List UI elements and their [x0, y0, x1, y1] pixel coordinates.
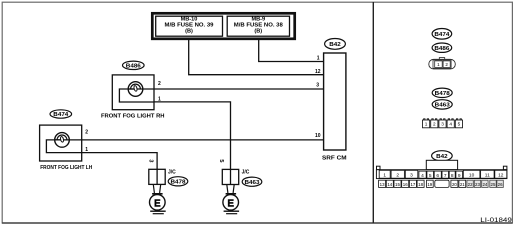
- connector label B42 (SRF CM): [325, 39, 346, 50]
- connector label B463: [242, 177, 262, 186]
- svg-text:5: 5: [429, 173, 432, 179]
- fog RH internal wiring: [119, 89, 154, 102]
- svg-text:22: 22: [468, 182, 473, 187]
- 26-pin connector body: [376, 170, 507, 179]
- 2-pin connector: [439, 58, 444, 60]
- fuse MB-9 box: [227, 16, 289, 36]
- svg-text:17: 17: [410, 182, 415, 187]
- svg-text:(B): (B): [254, 29, 262, 35]
- svg-text:3: 3: [441, 122, 444, 127]
- right panel: SRF CM connector B42 label: [432, 151, 453, 161]
- front fog light RH box: [112, 75, 154, 110]
- 5-pin J/C connector: [423, 120, 463, 128]
- 26-pin connector left notch: [377, 166, 381, 170]
- svg-text:B42: B42: [436, 154, 448, 160]
- wire fog RH pin 1 to J/C B463: [154, 102, 231, 169]
- svg-text:E: E: [154, 198, 161, 209]
- svg-text:J/C: J/C: [242, 169, 250, 175]
- svg-text:8: 8: [451, 173, 454, 179]
- connector label B474 (fog LH): [50, 110, 72, 118]
- svg-text:26: 26: [498, 182, 503, 187]
- right panel: connector B463 label: [432, 100, 452, 109]
- svg-text:13: 13: [380, 182, 385, 187]
- svg-text:24: 24: [482, 182, 487, 187]
- svg-text:E: E: [227, 198, 234, 209]
- svg-text:4: 4: [421, 173, 424, 179]
- fog LH bulb: [55, 133, 70, 148]
- ground E (B478): [153, 184, 160, 193]
- svg-text:SRF CM: SRF CM: [322, 156, 347, 162]
- svg-text:3: 3: [316, 83, 319, 89]
- svg-text:B478: B478: [171, 179, 186, 185]
- svg-text:B463: B463: [245, 180, 260, 186]
- svg-text:B474: B474: [434, 32, 449, 38]
- svg-text:1: 1: [383, 172, 386, 178]
- svg-text:B478: B478: [435, 91, 450, 97]
- junction connector J/C B478 box: [149, 169, 165, 184]
- svg-text:12: 12: [315, 69, 321, 75]
- wire MB-9 to SRF CM pin 1: [259, 39, 324, 62]
- svg-text:2: 2: [158, 81, 161, 87]
- svg-text:2: 2: [396, 172, 399, 178]
- svg-text:FRONT FOG LIGHT RH: FRONT FOG LIGHT RH: [101, 113, 165, 119]
- ground E (B463): [227, 185, 234, 194]
- svg-text:J/C: J/C: [168, 169, 176, 175]
- fog RH bulb: [128, 82, 143, 97]
- wire fog LH pin 2 to SRF CM pin 10: [55, 139, 324, 141]
- fog LH internal wiring: [46, 140, 81, 153]
- svg-text:14: 14: [387, 182, 392, 187]
- right panel: connector B478 label: [432, 88, 452, 97]
- svg-text:9: 9: [458, 173, 461, 179]
- svg-text:5: 5: [458, 122, 461, 127]
- 26-pin connector top row pin numbers: [383, 172, 503, 178]
- 26-pin connector bottom row pin numbers: [380, 182, 503, 187]
- svg-text:11: 11: [485, 172, 490, 178]
- svg-text:12: 12: [498, 172, 504, 178]
- svg-text:21: 21: [460, 182, 465, 187]
- SRF CM unit box: [324, 53, 346, 150]
- svg-text:B463: B463: [435, 103, 450, 109]
- 26-pin connector bottom row cells 13-21: [379, 180, 466, 187]
- svg-text:B474: B474: [53, 112, 68, 118]
- svg-text:2: 2: [85, 130, 88, 136]
- wire fog RH pin 2 to SRF CM pin 3: [128, 88, 323, 90]
- svg-text:1: 1: [85, 147, 88, 153]
- 26-pin connector right notch: [503, 166, 507, 170]
- svg-text:16: 16: [403, 182, 408, 187]
- 26-pin connector top row cells 1-12: [379, 170, 507, 178]
- svg-text:3: 3: [147, 159, 153, 162]
- front fog light LH box: [40, 125, 82, 161]
- wire MB-10 to SRF CM pin 12: [189, 39, 324, 75]
- svg-text:(B): (B): [185, 29, 193, 35]
- svg-text:6: 6: [436, 173, 439, 179]
- svg-text:18: 18: [418, 182, 423, 187]
- svg-text:15: 15: [395, 182, 400, 187]
- svg-text:B486: B486: [126, 63, 141, 69]
- svg-text:10: 10: [469, 172, 475, 178]
- svg-text:5: 5: [218, 159, 224, 162]
- svg-text:1: 1: [158, 96, 161, 102]
- svg-text:LI-01849: LI-01849: [480, 217, 512, 224]
- svg-text:10: 10: [315, 133, 321, 139]
- svg-text:FRONT FOG LIGHT LH: FRONT FOG LIGHT LH: [40, 165, 92, 171]
- svg-text:B486: B486: [434, 46, 449, 52]
- 5-pin connector pin numbers: [425, 122, 461, 127]
- svg-text:23: 23: [475, 182, 480, 187]
- wire fog LH pin 1 to J/C B478: [82, 153, 157, 170]
- right panel: connector B474 label: [432, 29, 452, 40]
- svg-text:B42: B42: [329, 42, 341, 48]
- svg-text:1: 1: [425, 122, 428, 127]
- svg-text:2: 2: [433, 122, 436, 127]
- svg-text:19: 19: [427, 182, 432, 187]
- svg-text:25: 25: [491, 182, 496, 187]
- junction connector J/C B463 box: [222, 169, 238, 184]
- fuse assembly outer box: [152, 13, 294, 39]
- svg-text:20: 20: [452, 182, 457, 187]
- fuse MB-10 box: [156, 16, 223, 36]
- svg-text:3: 3: [410, 172, 413, 178]
- 26-pin connector tab: [426, 160, 457, 169]
- right panel: connector B486 label: [432, 43, 452, 52]
- connector label B486 (fog RH): [123, 61, 145, 69]
- 26-pin connector bottom row cells 22-26 (shaded): [467, 180, 503, 187]
- svg-text:1: 1: [317, 56, 320, 62]
- svg-text:4: 4: [449, 122, 452, 127]
- connector label B478: [168, 177, 188, 186]
- svg-text:7: 7: [444, 173, 447, 179]
- 5-pin connector top tabs: [424, 119, 462, 120]
